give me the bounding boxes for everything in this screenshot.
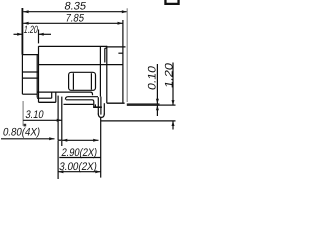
- left slat box bottom: [22, 93, 37, 95]
- dim 3.10 line with right arrow: [23, 119, 62, 121]
- seating plane line B thin continuation: [160, 104, 176, 106]
- internal vertical long: [106, 47, 108, 103]
- body bottom right edge: [107, 102, 125, 104]
- leg shelf with rounded corner: [65, 97, 98, 100]
- lower reference line C right: [101, 120, 176, 122]
- lower shelf 2 with corner down: [66, 100, 94, 108]
- left slat box right edge / cavity wall: [36, 55, 38, 98]
- svg-text:2.90(2X): 2.90(2X): [60, 147, 98, 159]
- dimension 7.85 line: [23, 22, 122, 24]
- body top edge right part: [106, 46, 125, 48]
- dimension 1.20 right extension line: [38, 30, 40, 44]
- left bathtub wall: [55, 92, 57, 102]
- dimension 7.85 left arrowhead: [23, 22, 28, 25]
- left foot bottom: [39, 101, 56, 103]
- internal vertical pair small: [104, 48, 106, 62]
- svg-text:7.85: 7.85: [64, 13, 85, 25]
- left slat divider 1: [22, 71, 38, 73]
- left leg inner wall: [61, 97, 63, 141]
- right foot inner vertical: [94, 104, 96, 107]
- body right edge: [122, 47, 124, 103]
- dimension 8.35 left arrowhead: [23, 10, 28, 13]
- mid lower shelf with corner: [37, 92, 93, 95]
- left leg extension line below (outer): [57, 141, 59, 179]
- body main outline: top edge left part: [39, 45, 107, 47]
- left leg extension line below (inner, short): [61, 141, 63, 146]
- internal horizontal shelf line: [39, 64, 123, 66]
- svg-text:8.35: 8.35: [63, 0, 87, 12]
- dimension 8.35 right extension line (gray): [126, 8, 128, 102]
- label 2.90(2X) underline: [59, 157, 100, 159]
- left slat box top: [22, 54, 38, 56]
- right leg pocket wall: [103, 103, 105, 114]
- left slat divider 2: [22, 77, 38, 79]
- top-right corner cropped frame glyph: [164, 0, 179, 5]
- dim 1.20 upper arrow (down): [172, 63, 174, 106]
- svg-text:1.20: 1.20: [23, 24, 39, 36]
- dimension 8.35 right arrowhead: [122, 10, 127, 13]
- left slat box left edge: [21, 55, 23, 95]
- dimension 1.20 right outside arrow: [39, 33, 52, 35]
- dimension 1.20 left outside arrow: [14, 33, 23, 35]
- latch rounded rectangle: [69, 72, 96, 90]
- body top step vertical: [106, 46, 108, 47]
- dim 0.10 upper arrow (down): [156, 64, 158, 104]
- right leg center tail extension: [100, 117, 102, 177]
- latch inner left wall: [72, 73, 74, 89]
- right leg outer wall: [97, 97, 99, 114]
- seating plane lines A+B merged band: [127, 103, 160, 106]
- svg-text:0.80(4X): 0.80(4X): [2, 126, 41, 138]
- inner pocket step line: [37, 97, 52, 99]
- mid underside line between legs: [64, 103, 94, 105]
- dim 0.10 lower arrow (up): [156, 105, 158, 116]
- dimension 7.85 right arrowhead: [118, 22, 123, 25]
- dimension 8.35 line: [23, 11, 127, 13]
- internal small top connector: [105, 47, 107, 49]
- right leg U bottom: [98, 114, 104, 118]
- body left edge: [38, 46, 40, 102]
- svg-text:3.00(2X): 3.00(2X): [58, 161, 98, 173]
- dimension 7.85 right extension line / body right edge upper: [122, 20, 124, 47]
- left leg bottom: [58, 139, 62, 141]
- right foot pad bottom (thick): [93, 106, 102, 108]
- inner pocket step wall: [51, 92, 53, 98]
- right leg inner wall: [100, 97, 102, 115]
- internal vertical right of latch: [99, 47, 101, 97]
- svg-text:1.20: 1.20: [164, 62, 176, 89]
- left extension line (thick, left face of slats): [21, 8, 23, 55]
- dim 3.10 left extension line (gray): [22, 101, 24, 126]
- dim 1.20 lower arrow (up): [172, 121, 174, 130]
- left leg outer wall: [57, 96, 59, 141]
- dim 3.00 line with arrowheads: [58, 171, 101, 173]
- svg-text:3.10: 3.10: [24, 109, 44, 121]
- dim 2.90 line with outward arrowheads: [62, 139, 99, 141]
- small blob at bottom of 3.10 extension: [24, 124, 27, 127]
- latch inner right wall: [90, 73, 92, 89]
- dim 0.80(4X) leader line with right arrow: [1, 138, 55, 140]
- svg-text:0.10: 0.10: [147, 65, 159, 91]
- right notch line: [118, 52, 123, 54]
